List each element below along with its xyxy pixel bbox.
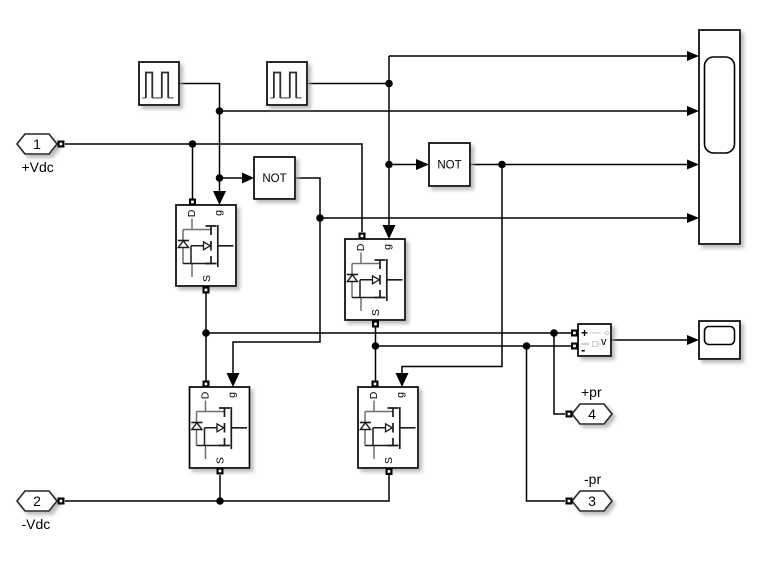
mosfet U1 (top-left) — [176, 205, 236, 286]
port marker D of MOSFET3 — [203, 381, 210, 388]
svg-text:NOT: NOT — [437, 160, 461, 172]
port marker of input port 2 — [58, 498, 65, 505]
junction dot node A — [202, 329, 210, 337]
label -pr — [584, 471, 601, 487]
voltage measurement block — [578, 324, 611, 357]
wire: branch up to source S of MOSFET3 — [219, 475, 221, 501]
wire: Voltage Measurement output to Scope1 — [611, 335, 699, 345]
junction dot on +pr branch — [550, 329, 558, 337]
port marker S of MOSFET2 — [372, 321, 379, 328]
port marker D of MOSFET4 — [372, 381, 379, 388]
junction dot on -pr branch — [523, 342, 531, 350]
svg-text:NOT: NOT — [262, 173, 286, 185]
wire: branch to Scope input 4 — [320, 213, 699, 223]
input port 2 hexagon — [17, 491, 57, 511]
wire: node B to Voltage Measurement minus input — [376, 345, 572, 347]
svg-text:+pr: +pr — [581, 384, 602, 400]
wire: Pulse Generator 2 output to vertical bus — [308, 83, 389, 85]
junction dot at pulse1/scope-in2 branch — [216, 107, 224, 115]
label: number 4 — [588, 406, 596, 422]
svg-text:v: v — [601, 336, 607, 348]
junction dot node B — [372, 342, 380, 350]
wire: branch from node A line down to output port 4 (+pr) — [554, 333, 565, 414]
svg-text:+: + — [581, 326, 588, 340]
label: number 1 — [33, 136, 41, 152]
port marker plus input of voltage measurement — [571, 330, 578, 337]
wire: junction to Scope input 2 — [220, 106, 700, 116]
label -Vdc — [22, 516, 51, 532]
output port 3 hexagon — [572, 491, 612, 511]
wire: NOT2 output to Scope input 3 — [470, 160, 699, 170]
wire: NOT1 output down and left to gate g of MOSFET3 — [227, 178, 321, 387]
wire: branch down to drain D of MOSFET1 — [192, 144, 194, 199]
port marker of output port 3 — [566, 498, 573, 505]
wire: NOT2 output branch down and left to gate g of MOSFET4 — [396, 165, 503, 388]
wire: +Vdc from Port1 to drain D of MOSFET2 — [65, 144, 362, 232]
port marker of input port 1 — [58, 141, 65, 148]
port marker S of MOSFET4 — [386, 468, 393, 475]
wire: branch from node B line down to output port 3 (-pr) — [527, 346, 566, 501]
port marker S of MOSFET1 — [203, 287, 210, 294]
svg-text:+Vdc: +Vdc — [22, 159, 54, 175]
svg-text:1: 1 — [33, 136, 41, 152]
wire: -Vdc rail from Port2 to source S of MOSFET4 — [65, 475, 389, 501]
port marker D of MOSFET1 — [189, 199, 196, 206]
mosfet U2 (middle) — [345, 239, 405, 320]
mosfet U3 (bottom-left) — [190, 387, 250, 468]
mosfet U4 (bottom-right) — [358, 387, 418, 468]
logic NOT2 — [429, 143, 470, 186]
pulse generator Pulse1 — [139, 62, 179, 105]
scope (4-input, tall) — [699, 30, 740, 244]
svg-text:2: 2 — [33, 493, 41, 509]
svg-text:4: 4 — [588, 406, 596, 422]
junction dot at NOT2 input branch — [385, 161, 393, 169]
port marker D of MOSFET2 — [359, 233, 366, 240]
label: number 2 — [33, 493, 41, 509]
pulse generator Pulse2 — [267, 62, 307, 105]
junction dot on -Vdc rail — [216, 497, 224, 505]
wire: branch into NOT1 input — [220, 173, 255, 184]
scope1 (single input, small) — [699, 321, 740, 359]
logic NOT1 — [254, 157, 295, 199]
wire: node A from source S of MOSFET1 down to drain D of MOSFET3 — [205, 293, 207, 381]
wire: Pulse Generator 1 output down to gate g of MOSFET1 — [179, 84, 226, 206]
junction dot at Scope input4 branch — [316, 214, 324, 222]
wire: branch into NOT2 input — [389, 159, 429, 170]
svg-text:-pr: -pr — [584, 471, 601, 487]
svg-text:-Vdc: -Vdc — [22, 516, 51, 532]
port marker of output port 4 — [566, 411, 573, 418]
junction dot at NOT2 output branch — [498, 161, 506, 169]
wire: node A to Voltage Measurement plus input — [206, 332, 571, 334]
label +pr — [581, 384, 602, 400]
junction dot at NOT1 input branch — [216, 174, 224, 182]
port marker minus input of voltage measurement — [571, 343, 578, 350]
svg-text:3: 3 — [588, 493, 596, 509]
port marker S of MOSFET3 — [217, 468, 224, 475]
output port 4 hexagon — [572, 404, 612, 424]
junction dot pulse2 output on bus — [385, 80, 393, 88]
wire: vertical bus from Scope input 1 corner down to gate g of MOSFET2 — [383, 51, 700, 239]
junction dot on +Vdc line at D1 branch — [189, 140, 197, 148]
label: number 3 — [588, 493, 596, 509]
input port 1 hexagon — [17, 134, 57, 154]
wire: node B from source S of MOSFET2 down to drain D of MOSFET4 — [375, 327, 377, 381]
label +Vdc — [22, 159, 54, 175]
